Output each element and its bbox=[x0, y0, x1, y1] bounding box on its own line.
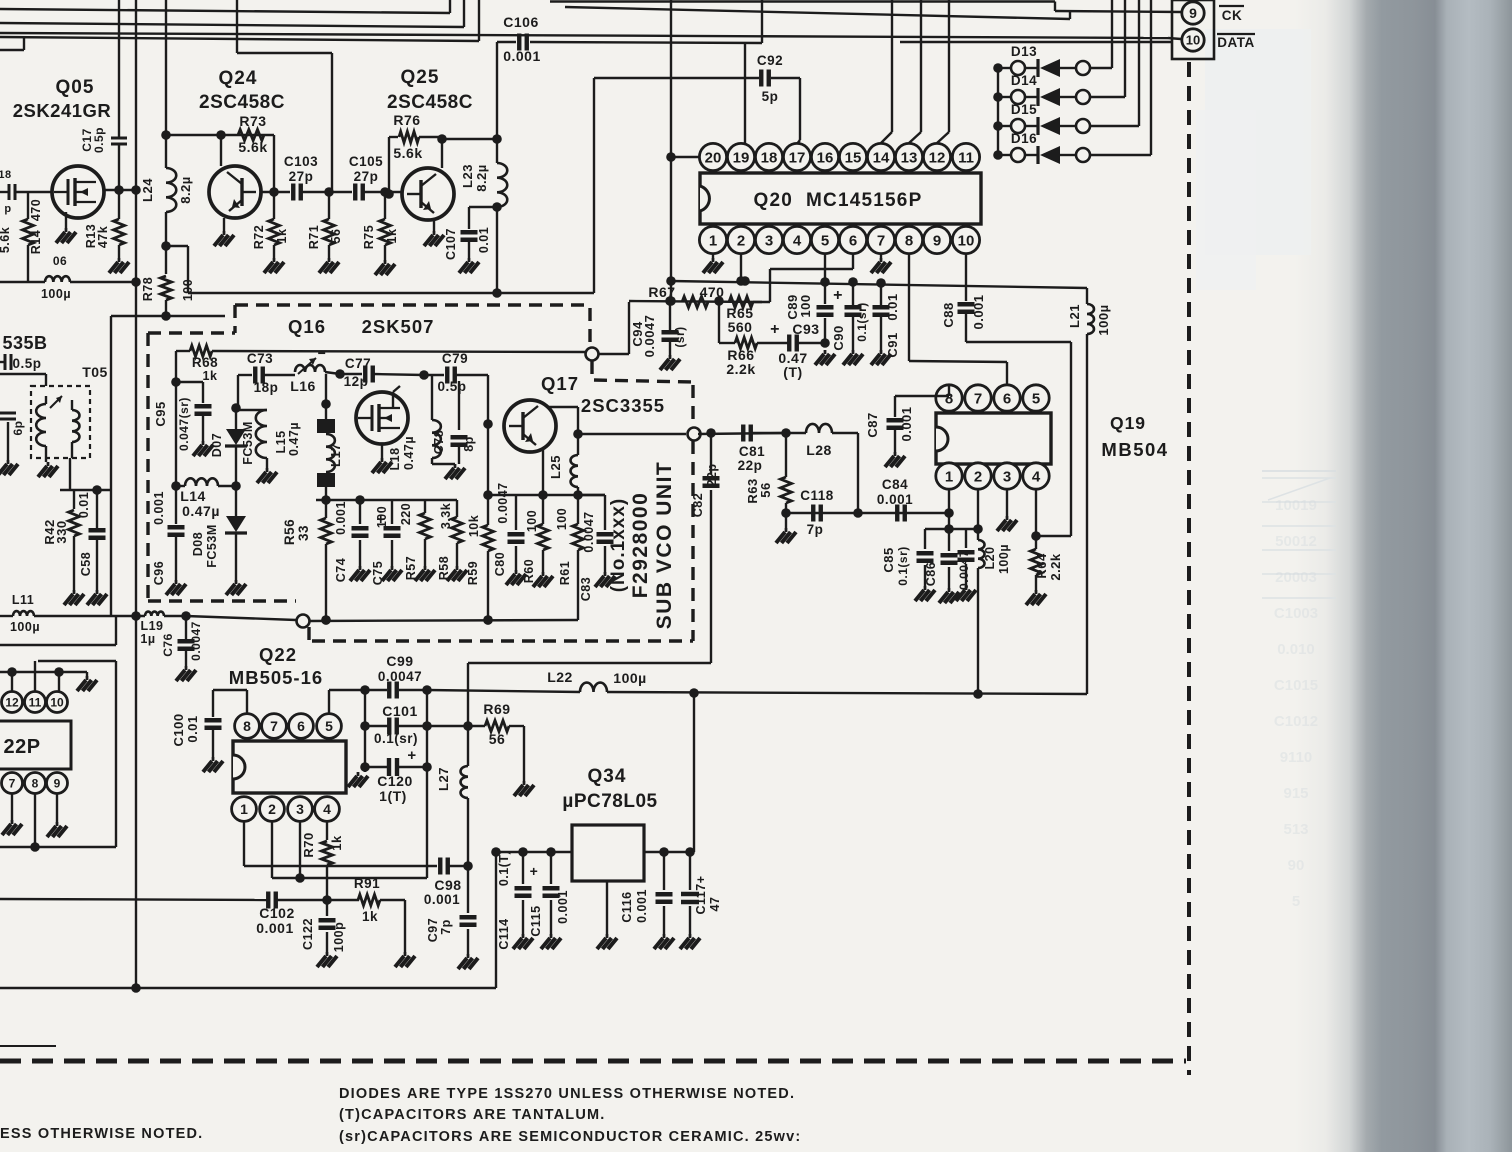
svg-text:C80: C80 bbox=[493, 552, 507, 576]
svg-text:2: 2 bbox=[737, 232, 745, 249]
svg-text:Q20 MC145156P: Q20 MC145156P bbox=[754, 190, 923, 211]
svg-text:C122: C122 bbox=[301, 918, 315, 950]
resistor R13 bbox=[84, 190, 129, 273]
svg-text:2.2k: 2.2k bbox=[726, 361, 755, 377]
wire L19 to VCO bbox=[186, 616, 296, 620]
capacitor C106 bbox=[503, 14, 541, 64]
svg-text:MB504: MB504 bbox=[1101, 439, 1168, 460]
capacitor C94 bbox=[630, 296, 687, 370]
label Q17 type bbox=[581, 395, 665, 416]
capacitor C80 bbox=[493, 482, 526, 585]
svg-text:56: 56 bbox=[758, 482, 773, 497]
inductor L21 bbox=[1067, 288, 1111, 694]
transistor Q16 bbox=[356, 392, 408, 444]
dashed VCO box step right bbox=[588, 308, 591, 346]
wire Q34 output bbox=[644, 693, 695, 857]
note diodes bbox=[339, 1086, 795, 1102]
svg-text:0.0047: 0.0047 bbox=[582, 511, 596, 552]
wire C102 line bbox=[0, 899, 359, 900]
capacitor C118 bbox=[800, 488, 834, 537]
svg-text:0.0047: 0.0047 bbox=[189, 621, 203, 661]
capacitor input bbox=[0, 169, 15, 215]
capacitor C107 bbox=[444, 207, 497, 273]
svg-text:C81: C81 bbox=[739, 444, 765, 459]
inductor L11 bbox=[10, 593, 40, 634]
svg-text:47: 47 bbox=[708, 897, 722, 912]
svg-text:(No.1xxx): (No.1xxx) bbox=[608, 498, 629, 593]
label T05 bbox=[82, 364, 108, 380]
svg-text:47k: 47k bbox=[96, 226, 110, 248]
svg-text:D15: D15 bbox=[1011, 102, 1037, 117]
capacitor C77 bbox=[344, 356, 424, 389]
transformer T05 bbox=[36, 396, 79, 462]
svg-text:0.01: 0.01 bbox=[77, 492, 91, 518]
IC Q22 box bbox=[233, 741, 346, 793]
pin 7 bbox=[2, 773, 23, 794]
wire IC top pins line bbox=[0, 667, 87, 677]
svg-text:5: 5 bbox=[1032, 390, 1040, 407]
svg-text:C115: C115 bbox=[529, 905, 543, 936]
svg-text:1: 1 bbox=[240, 801, 248, 817]
label Q16 bbox=[288, 316, 326, 337]
svg-text:L16: L16 bbox=[290, 378, 316, 394]
svg-text:50012: 50012 bbox=[1275, 533, 1317, 550]
pin 8 bbox=[25, 773, 46, 794]
wire top bus H3 bbox=[0, 0, 479, 41]
svg-text:0.47µ: 0.47µ bbox=[402, 436, 416, 470]
capacitor C99 bbox=[378, 653, 422, 699]
wire C79 node bbox=[419, 370, 444, 380]
svg-text:R56: R56 bbox=[282, 519, 297, 545]
svg-text:T05: T05 bbox=[82, 364, 108, 380]
svg-text:C101: C101 bbox=[382, 703, 417, 719]
svg-text:C99: C99 bbox=[386, 653, 413, 669]
svg-text:D13: D13 bbox=[1011, 44, 1037, 59]
svg-text:MB505-16: MB505-16 bbox=[229, 667, 323, 688]
wire T05 secondary bbox=[60, 458, 111, 495]
wire VCO left rail bbox=[171, 351, 181, 491]
svg-text:L14: L14 bbox=[180, 488, 206, 504]
resistor R65 bbox=[726, 297, 753, 336]
inductor L24 bbox=[140, 135, 193, 251]
svg-text:100µ: 100µ bbox=[10, 620, 40, 634]
svg-text:L19: L19 bbox=[140, 619, 163, 633]
pin 12 bbox=[2, 692, 23, 713]
svg-text:330: 330 bbox=[54, 520, 69, 543]
label SUB VCO UNIT bbox=[653, 461, 676, 630]
wire C77 node bbox=[335, 369, 362, 379]
svg-text:(sr): (sr) bbox=[673, 326, 687, 347]
wire cap bank line bbox=[925, 528, 978, 530]
capacitor C90 bbox=[831, 282, 869, 365]
svg-text:100: 100 bbox=[525, 510, 539, 532]
svg-text:9110: 9110 bbox=[1280, 749, 1313, 766]
pin 9b bbox=[47, 773, 68, 794]
capacitor C89 bbox=[785, 287, 843, 320]
svg-text:0.001: 0.001 bbox=[899, 406, 914, 441]
svg-text:10: 10 bbox=[958, 232, 975, 249]
svg-text:9: 9 bbox=[54, 776, 61, 790]
inductor L28 bbox=[786, 424, 863, 518]
svg-text:915: 915 bbox=[1283, 785, 1308, 802]
svg-text:Q19: Q19 bbox=[1110, 413, 1146, 433]
wire Q05 drain bbox=[104, 185, 141, 195]
wire vertical V3 bbox=[165, 0, 167, 135]
IC Q22 bottom pins bbox=[232, 797, 340, 822]
dashed VCO box right upper bbox=[592, 361, 693, 382]
label Q19 bbox=[1110, 413, 1146, 433]
IC Q20 bottom pins 1-10 bbox=[699, 226, 979, 253]
svg-text:6: 6 bbox=[297, 718, 305, 734]
ground T05 bbox=[38, 462, 58, 477]
ground pin9 bbox=[47, 794, 67, 837]
label 2SK241GR bbox=[13, 100, 112, 121]
svg-text:+: + bbox=[376, 511, 385, 528]
wire R66 branch bbox=[719, 301, 735, 343]
svg-text:(sr)CAPACITORS ARE SEMICONDUCT: (sr)CAPACITORS ARE SEMICONDUCTOR CERAMIC… bbox=[339, 1129, 801, 1145]
resistor R69 bbox=[468, 701, 534, 796]
svg-text:DATA: DATA bbox=[1217, 35, 1255, 50]
inductor L23 bbox=[460, 139, 507, 298]
svg-text:0.001: 0.001 bbox=[503, 48, 541, 64]
svg-text:C85: C85 bbox=[881, 547, 896, 572]
svg-text:19: 19 bbox=[733, 149, 750, 166]
dashed VCO box right bottom bbox=[691, 441, 694, 641]
dashed VCO box top bbox=[235, 303, 588, 306]
svg-text:10: 10 bbox=[1186, 33, 1200, 48]
capacitor C95 bbox=[153, 382, 213, 456]
wire left edge jog bbox=[0, 38, 24, 50]
svg-text:8p: 8p bbox=[462, 436, 476, 452]
inductor L15 bbox=[236, 410, 301, 483]
svg-text:5.6k: 5.6k bbox=[393, 145, 422, 161]
diode D15 bbox=[993, 0, 1139, 135]
capacitor C100 bbox=[171, 713, 223, 772]
pin 11 bbox=[25, 692, 46, 713]
svg-text:100: 100 bbox=[555, 508, 569, 530]
diode D14 bbox=[993, 0, 1125, 106]
svg-text:C1003: C1003 bbox=[1274, 605, 1318, 622]
svg-text:6: 6 bbox=[1003, 390, 1011, 407]
svg-text:5: 5 bbox=[821, 232, 829, 249]
wire left vertical x111 bbox=[110, 316, 112, 616]
inductor L19 bbox=[140, 611, 190, 646]
svg-text:1k: 1k bbox=[275, 229, 289, 244]
svg-text:1k: 1k bbox=[203, 369, 218, 383]
resistor R58 bbox=[437, 500, 467, 581]
svg-text:0.0047: 0.0047 bbox=[957, 550, 971, 590]
svg-text:L23: L23 bbox=[460, 164, 475, 188]
svg-text:L20: L20 bbox=[983, 546, 997, 569]
svg-text:Q25: Q25 bbox=[401, 67, 440, 88]
pin 10 bbox=[47, 692, 68, 713]
svg-text:R57: R57 bbox=[404, 556, 418, 580]
label Q22 bbox=[259, 644, 297, 665]
resistor R64 bbox=[1026, 536, 1063, 605]
svg-text:0.5p: 0.5p bbox=[437, 379, 466, 394]
capacitor C115 bbox=[529, 852, 570, 949]
svg-text:Q22: Q22 bbox=[259, 644, 297, 665]
capacitor C78 bbox=[432, 381, 476, 479]
svg-text:1(T): 1(T) bbox=[379, 788, 407, 804]
svg-text:C102: C102 bbox=[259, 905, 294, 921]
wire L06 line bbox=[0, 277, 141, 287]
wire bus under pins box bbox=[900, 41, 1172, 43]
capacitor C92 bbox=[757, 53, 783, 104]
svg-text:90: 90 bbox=[1288, 857, 1305, 874]
svg-text:16: 16 bbox=[817, 149, 834, 166]
svg-text:Q17: Q17 bbox=[541, 373, 579, 394]
svg-text:(T)CAPACITORS ARE TANTALUM.: (T)CAPACITORS ARE TANTALUM. bbox=[339, 1107, 606, 1123]
svg-text:L17: L17 bbox=[328, 443, 343, 467]
wire Q22 pin1 bbox=[244, 822, 437, 866]
svg-text:11: 11 bbox=[29, 695, 42, 709]
label 0.5p bbox=[0, 354, 42, 371]
svg-text:27p: 27p bbox=[289, 169, 314, 184]
svg-text:DIODES ARE TYPE 1SS270 UNLESS: DIODES ARE TYPE 1SS270 UNLESS OTHERWISE … bbox=[339, 1086, 795, 1102]
capacitor C101 bbox=[365, 703, 427, 746]
ground Q16 source bbox=[372, 444, 392, 473]
capacitor C57 bbox=[0, 413, 25, 475]
inductor L14 bbox=[176, 478, 241, 519]
capacitor C87 bbox=[865, 385, 949, 467]
svg-text:R91: R91 bbox=[354, 876, 380, 891]
wire left edge stub bbox=[0, 1045, 56, 1047]
svg-text:2SK241GR: 2SK241GR bbox=[13, 100, 112, 121]
resistor R63 bbox=[745, 433, 792, 518]
svg-text:12p: 12p bbox=[344, 374, 369, 389]
wire C106 line bbox=[497, 42, 762, 139]
svg-text:C114: C114 bbox=[497, 918, 511, 949]
wire R67 to VCO node bbox=[599, 302, 629, 354]
wire B control line bbox=[594, 78, 800, 293]
IC Q19 box bbox=[936, 413, 1051, 464]
svg-text:L22: L22 bbox=[547, 669, 573, 685]
svg-text:0.01: 0.01 bbox=[885, 293, 900, 320]
inductor L16 variable bbox=[290, 345, 340, 394]
wire VCO collector out bbox=[578, 433, 686, 435]
svg-text:3: 3 bbox=[296, 801, 304, 817]
wire pin12 up stub bbox=[11, 672, 13, 691]
wire R65 to pin6 bbox=[753, 301, 770, 303]
ground C93 node bbox=[815, 350, 835, 365]
svg-text:C106: C106 bbox=[503, 14, 538, 30]
capacitor C117 bbox=[680, 852, 722, 949]
svg-text:56: 56 bbox=[329, 229, 343, 244]
svg-text:C91: C91 bbox=[885, 332, 900, 357]
svg-text:13: 13 bbox=[901, 149, 918, 166]
label 535B bbox=[2, 333, 47, 353]
ground Q24 emitter bbox=[214, 218, 234, 246]
dashed VCO box top left bbox=[148, 305, 235, 333]
resistor R57 bbox=[392, 500, 435, 581]
capacitor C96 bbox=[152, 486, 186, 595]
wire CK line lower bbox=[565, 7, 1070, 19]
svg-text:0.001: 0.001 bbox=[877, 492, 913, 507]
wire supply riser bbox=[495, 853, 497, 988]
svg-text:5p: 5p bbox=[762, 89, 779, 104]
svg-text:0.001: 0.001 bbox=[556, 890, 570, 924]
svg-text:1: 1 bbox=[945, 468, 953, 485]
wire supply line bbox=[463, 663, 711, 731]
svg-text:SUB VCO UNIT: SUB VCO UNIT bbox=[653, 461, 676, 630]
transistor Q24 bbox=[209, 166, 261, 218]
svg-text:0.01: 0.01 bbox=[185, 715, 200, 742]
wire pin19 drop from C106 bbox=[744, 43, 746, 143]
wire vertical V1 top bbox=[118, 0, 120, 127]
svg-text:9: 9 bbox=[933, 232, 941, 249]
capacitor C81 bbox=[738, 425, 786, 474]
svg-text:CK: CK bbox=[1222, 8, 1243, 23]
wire L24 jog bbox=[166, 246, 188, 293]
svg-text:R71: R71 bbox=[307, 225, 321, 249]
svg-text:R70: R70 bbox=[301, 832, 316, 857]
svg-text:L21: L21 bbox=[1067, 304, 1082, 328]
svg-text:5: 5 bbox=[325, 718, 333, 734]
svg-text:R76: R76 bbox=[393, 112, 420, 128]
svg-text:R72: R72 bbox=[252, 225, 266, 249]
svg-text:C87: C87 bbox=[865, 412, 880, 437]
ground Q25 emitter bbox=[424, 220, 444, 246]
capacitor C98 bbox=[424, 858, 468, 908]
svg-text:C103: C103 bbox=[284, 154, 318, 169]
inductor L06 bbox=[41, 254, 71, 301]
ground pin7 bbox=[2, 794, 22, 835]
svg-text:33: 33 bbox=[296, 525, 311, 541]
wire Q34 input line bbox=[491, 847, 572, 857]
svg-text:7: 7 bbox=[270, 718, 278, 734]
svg-text:D08: D08 bbox=[191, 532, 205, 556]
wire bottom bus bbox=[0, 983, 496, 993]
label Q05 bbox=[56, 77, 95, 98]
svg-text:0.47µ: 0.47µ bbox=[182, 503, 220, 519]
capacitor C114 bbox=[497, 850, 538, 950]
svg-text:R75: R75 bbox=[362, 225, 376, 249]
svg-text:Q34: Q34 bbox=[588, 766, 627, 787]
wire Q17 emitter bbox=[538, 450, 548, 500]
pin 10 bbox=[1182, 29, 1204, 51]
svg-text:3: 3 bbox=[765, 232, 773, 249]
ground Q34 bbox=[597, 881, 617, 949]
wire second line bbox=[0, 617, 116, 645]
svg-text:C107: C107 bbox=[444, 228, 458, 260]
capacitor C122 bbox=[301, 900, 346, 967]
svg-text:20: 20 bbox=[705, 149, 722, 166]
node VCO feed bottom bbox=[297, 615, 310, 628]
svg-text:22p: 22p bbox=[738, 458, 763, 473]
resistor R76 bbox=[384, 112, 442, 199]
svg-text:470: 470 bbox=[29, 199, 43, 221]
svg-text:10019: 10019 bbox=[1275, 497, 1317, 514]
wire C79 to Q17 base bbox=[483, 375, 493, 429]
capacitor C116 bbox=[620, 852, 674, 949]
capacitor C88 bbox=[941, 294, 986, 342]
wire diode column bbox=[997, 68, 999, 155]
svg-text:C100: C100 bbox=[171, 713, 186, 746]
svg-text:0.001: 0.001 bbox=[424, 892, 460, 907]
diode D08 varactor bbox=[191, 486, 247, 595]
svg-text:L25: L25 bbox=[548, 455, 563, 479]
wire R67 line bbox=[629, 296, 762, 306]
connector box pins 9-10 bbox=[1172, 0, 1214, 59]
label MB504 bbox=[1101, 439, 1168, 460]
svg-text:12: 12 bbox=[5, 695, 19, 709]
svg-text:8: 8 bbox=[243, 718, 251, 734]
wire Q24 base line bbox=[261, 191, 290, 193]
capacitor C58 bbox=[77, 490, 107, 605]
svg-text:8.2µ: 8.2µ bbox=[178, 176, 193, 204]
svg-text:20003: 20003 bbox=[1275, 569, 1317, 586]
wire Q22 pin5 up bbox=[329, 685, 370, 713]
resistor R59 bbox=[466, 495, 494, 625]
svg-text:0.010: 0.010 bbox=[1277, 641, 1315, 658]
svg-text:C98: C98 bbox=[434, 877, 461, 893]
svg-text:FC53M: FC53M bbox=[205, 524, 219, 567]
net label CK bbox=[1219, 6, 1244, 23]
wire y316 line bbox=[111, 311, 225, 321]
svg-text:2SC3355: 2SC3355 bbox=[581, 395, 665, 416]
inductor L17 ferrite bbox=[317, 374, 343, 505]
svg-text:+: + bbox=[530, 863, 539, 879]
svg-text:ESS OTHERWISE NOTED.: ESS OTHERWISE NOTED. bbox=[0, 1126, 203, 1142]
svg-text:C118: C118 bbox=[800, 488, 834, 503]
resistor R66 bbox=[726, 338, 757, 378]
svg-text:0.5p: 0.5p bbox=[92, 127, 106, 153]
resistor R73 bbox=[238, 113, 268, 155]
svg-text:7: 7 bbox=[9, 776, 16, 790]
wire top bus H2 bbox=[0, 0, 464, 27]
svg-text:C82: C82 bbox=[691, 493, 705, 517]
svg-text:11: 11 bbox=[958, 149, 974, 166]
svg-text:0.47µ: 0.47µ bbox=[287, 422, 301, 456]
wire Q19 pin4 bbox=[1031, 489, 1041, 541]
svg-text:2SC458C: 2SC458C bbox=[199, 92, 285, 113]
wire pin2 down bbox=[740, 254, 750, 286]
svg-text:+: + bbox=[407, 747, 416, 764]
wire Q22 pin2 bbox=[271, 822, 273, 878]
wire Q05 gate line bbox=[0, 191, 52, 193]
wire pin6 jog bbox=[770, 254, 853, 302]
svg-text:C86: C86 bbox=[924, 562, 938, 586]
label Q25 type bbox=[387, 92, 473, 113]
dashed page divider bottom bbox=[0, 1059, 1186, 1064]
wire vertical V4 jog bbox=[237, 0, 332, 192]
svg-text:C93: C93 bbox=[792, 321, 819, 337]
svg-text:0.001: 0.001 bbox=[152, 491, 166, 525]
svg-text:18: 18 bbox=[0, 169, 12, 181]
wire VCO bottom bus bbox=[309, 615, 578, 625]
wire Q22 pin3 bbox=[299, 822, 301, 878]
svg-text:470: 470 bbox=[700, 284, 725, 300]
capacitor C120 bbox=[365, 747, 427, 804]
resistor R70 bbox=[301, 822, 344, 905]
wire L11 line bbox=[0, 611, 145, 621]
note left bbox=[0, 1126, 203, 1142]
svg-text:8: 8 bbox=[32, 776, 39, 790]
capacitor C76 bbox=[161, 616, 203, 681]
svg-text:R61: R61 bbox=[558, 561, 572, 585]
resistor R78 bbox=[141, 246, 195, 316]
ground IC top bbox=[77, 676, 97, 691]
svg-text:2SK507: 2SK507 bbox=[362, 316, 435, 337]
ground Q19 pin3 bbox=[997, 489, 1017, 531]
svg-text:2: 2 bbox=[974, 468, 982, 485]
svg-text:0.0047: 0.0047 bbox=[496, 482, 510, 523]
svg-text:0.001: 0.001 bbox=[635, 889, 649, 923]
wire R73 to R72 bbox=[269, 135, 279, 197]
svg-text:C95: C95 bbox=[153, 401, 168, 426]
svg-text:18p: 18p bbox=[254, 380, 279, 395]
